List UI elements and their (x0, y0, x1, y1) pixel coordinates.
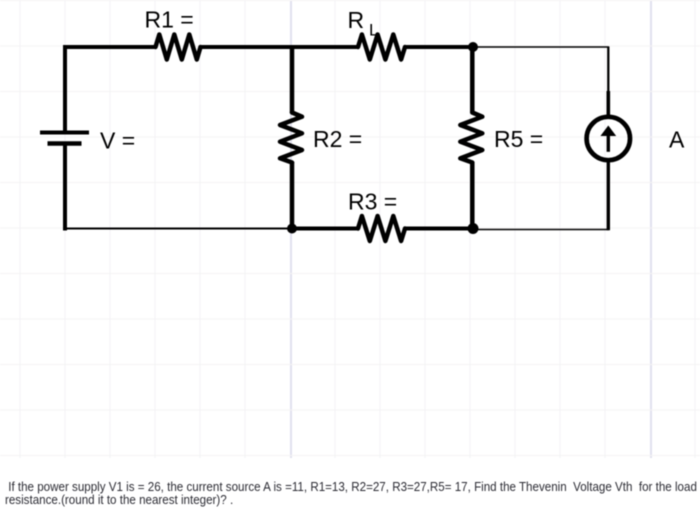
wire battery - lead (left vertical bottom) (63, 144, 67, 231)
wire top rail: RL to node A (405, 45, 474, 49)
svg-text:R: R (348, 7, 365, 33)
wire (thin) bottom rail: node C to current source branch (473, 229, 609, 231)
svg-text:V =: V = (100, 128, 135, 154)
node B junction dot (287, 224, 297, 234)
wire bottom rail: node B to R3 (292, 227, 359, 231)
svg-text:R2 =: R2 = (313, 126, 362, 152)
wire (thin) bottom rail: battery to node B (64, 228, 292, 230)
current source A1 (587, 117, 630, 160)
wire top rail: R1 to RL (through R2 tap) (200, 45, 359, 49)
wire (thin) current source branch upper (607, 47, 609, 93)
wire bottom rail: R3 to node C (405, 227, 474, 231)
svg-text:L: L (369, 21, 378, 40)
svg-text:R5 =: R5 = (494, 126, 543, 152)
wire R5 branch bottom (470, 162, 475, 229)
wire current source bottom lead (607, 160, 610, 230)
wire current source top lead (606, 91, 610, 117)
resistor RL (358, 35, 405, 60)
resistor R3 (358, 216, 405, 241)
resistor R5 (460, 113, 482, 163)
node C junction dot (468, 223, 479, 234)
wire battery + lead (left vertical top) (63, 45, 67, 133)
wire R2 branch bottom (290, 162, 295, 229)
svg-text:R3 =: R3 = (348, 189, 397, 215)
question text (5, 480, 697, 506)
node A junction dot (468, 42, 478, 52)
resistor R2 (280, 113, 302, 163)
resistor R1 (156, 35, 201, 60)
wire top rail: battery + to R1 (63, 45, 156, 49)
battery V1 (40, 133, 89, 144)
wire R5 branch top (470, 47, 475, 113)
wire (thin) node A to current source branch (473, 46, 609, 48)
svg-text:R1 =: R1 = (145, 7, 194, 33)
svg-text:A: A (669, 127, 685, 153)
wire R2 branch top (290, 45, 295, 113)
